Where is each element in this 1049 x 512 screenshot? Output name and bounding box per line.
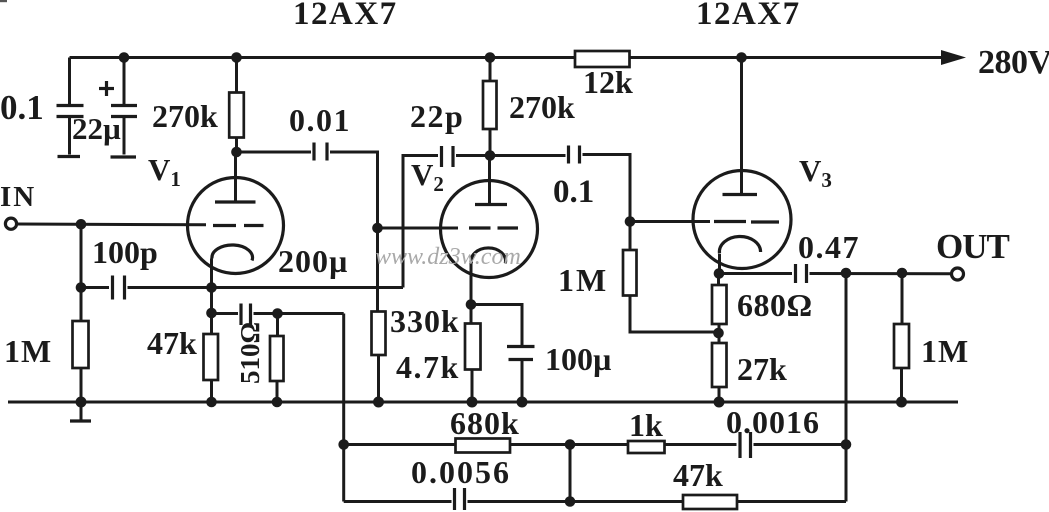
- capacitor 100p: [81, 276, 403, 300]
- wire: 0.1 coupling run: [490, 154, 566, 157]
- node: output-1M junction: [897, 268, 908, 279]
- wire: 22p feedback run: [403, 156, 438, 288]
- resistor 270k (V1 plate load): [229, 58, 244, 153]
- svg-text:OUT: OUT: [936, 227, 1010, 266]
- wire: feedback network lower run: [344, 500, 452, 503]
- wire: V2 grid: [378, 227, 459, 230]
- resistor 270k (V2 plate load): [483, 58, 497, 156]
- capacitor 0.1 (supply filter): [57, 58, 84, 157]
- node: 510Ω top junction: [272, 308, 283, 319]
- svg-text:47k: 47k: [673, 457, 723, 493]
- wire: 1k junction drop: [569, 445, 572, 502]
- node: output junction (feedback tap): [841, 268, 852, 279]
- svg-text:1M: 1M: [558, 262, 608, 298]
- node: V3 cathode junction: [714, 268, 725, 279]
- wire: feedback network upper run: [344, 443, 456, 446]
- capacitor 0.1 (interstage coupling): [569, 146, 631, 222]
- svg-text:680Ω: 680Ω: [737, 287, 813, 323]
- wire: feedback drop: [342, 314, 345, 502]
- svg-text:270k: 270k: [509, 89, 575, 125]
- wire: input to V1 grid: [18, 223, 207, 227]
- resistor 330k (V2 grid leak): [372, 228, 386, 402]
- node: V2 anode junction: [485, 150, 496, 161]
- svg-text:270k: 270k: [152, 98, 218, 134]
- svg-text:100p: 100p: [92, 234, 158, 270]
- node: V1 anode junction: [231, 147, 242, 158]
- capacitor 22µ: [99, 58, 137, 158]
- OUT terminal: [952, 268, 964, 280]
- svg-text:4.7k: 4.7k: [396, 349, 460, 385]
- resistor 27k: [712, 343, 727, 402]
- IN terminal: [5, 218, 16, 229]
- node: 100p junction: [76, 282, 87, 293]
- svg-text:100µ: 100µ: [545, 341, 611, 377]
- tube V3: [693, 58, 791, 274]
- node: cathode network junction: [206, 308, 217, 319]
- svg-text:22µ: 22µ: [72, 111, 121, 146]
- capacitor 200µ: [212, 304, 344, 326]
- capacitor 0.47 (output coupling): [796, 264, 952, 283]
- svg-text:12AX7: 12AX7: [293, 0, 398, 32]
- svg-text:0.47: 0.47: [798, 229, 860, 265]
- node: lower feedback junction: [565, 496, 576, 507]
- svg-text:330k: 330k: [390, 303, 460, 339]
- resistor 4.7k (V2 cathode): [465, 305, 481, 403]
- wire: output feedback drop: [845, 273, 848, 502]
- resistor 12k: [575, 51, 630, 67]
- resistor 1k: [570, 441, 737, 453]
- wire: V1 cathode column: [210, 288, 213, 403]
- node: rail-270k junction: [231, 52, 242, 63]
- svg-text:47k: 47k: [147, 325, 197, 361]
- svg-text:0.0016: 0.0016: [726, 404, 820, 440]
- svg-text:IN: IN: [0, 181, 36, 213]
- resistor 680Ω (V3 cathode): [712, 274, 727, 344]
- wire: B+ power rail: [70, 56, 945, 59]
- resistor 510Ω: [270, 314, 284, 403]
- svg-text:1M: 1M: [921, 333, 969, 369]
- capacitor 0.0056: [455, 488, 684, 510]
- wire: V3 grid: [630, 220, 710, 223]
- node: feedback left junction: [338, 439, 349, 450]
- node: input junction: [76, 219, 87, 230]
- wire: 0.01 coupling run: [237, 151, 312, 154]
- svg-text:200µ: 200µ: [278, 243, 348, 279]
- ground: [70, 402, 91, 421]
- node: V3 grid junction: [625, 216, 636, 227]
- svg-text:22p: 22p: [410, 98, 464, 134]
- svg-text:680k: 680k: [450, 405, 520, 441]
- node: cathode-100p junction: [206, 282, 217, 293]
- wire: input junction down: [80, 224, 83, 287]
- svg-text:1k: 1k: [629, 407, 663, 443]
- resistor 47k (V1 cathode): [204, 334, 219, 380]
- capacitor 22p: [442, 146, 491, 167]
- svg-text:0.0056: 0.0056: [411, 454, 511, 490]
- node: 680k-1k junction: [565, 439, 576, 450]
- svg-text:27k: 27k: [737, 351, 787, 387]
- node: rail-22µ junction: [119, 52, 130, 63]
- resistor 680k: [456, 439, 571, 453]
- svg-text:0.1: 0.1: [0, 88, 44, 127]
- corner scan mark: [0, 0, 7, 2]
- svg-text:0.01: 0.01: [289, 102, 351, 138]
- svg-text:12AX7: 12AX7: [696, 0, 801, 32]
- 280V supply arrow: [941, 50, 966, 65]
- svg-text:12k: 12k: [583, 64, 633, 100]
- node: 680Ω-27k junction: [713, 328, 724, 339]
- node: rail-V3 plate junction: [736, 52, 747, 63]
- svg-text:510Ω: 510Ω: [235, 322, 265, 384]
- resistor 1M (input): [73, 288, 89, 403]
- svg-text:www.dz3w.com: www.dz3w.com: [375, 244, 521, 270]
- resistor 47k (feedback): [683, 495, 846, 509]
- wire: ground bus: [8, 401, 958, 404]
- node: V2 cathode junction: [466, 299, 477, 310]
- node: feedback right junction: [841, 439, 852, 450]
- resistor 1M (V3 grid leak): [623, 222, 719, 333]
- node: rail-270k(2) junction: [485, 52, 496, 63]
- tube V2: [441, 156, 538, 305]
- tube V1: [188, 152, 284, 288]
- capacitor 0.01: [314, 143, 378, 229]
- node: ground junctions: [76, 397, 908, 408]
- svg-text:1M: 1M: [4, 333, 52, 369]
- resistor 1M (output load): [894, 273, 909, 402]
- capacitor 0.0016: [740, 432, 846, 458]
- wire: cathode to output cap: [719, 272, 793, 275]
- capacitor 100µ (cathode bypass): [471, 305, 535, 403]
- svg-text:0.1: 0.1: [553, 174, 594, 210]
- svg-text:280V: 280V: [978, 44, 1049, 81]
- node: V2 grid junction: [372, 223, 383, 234]
